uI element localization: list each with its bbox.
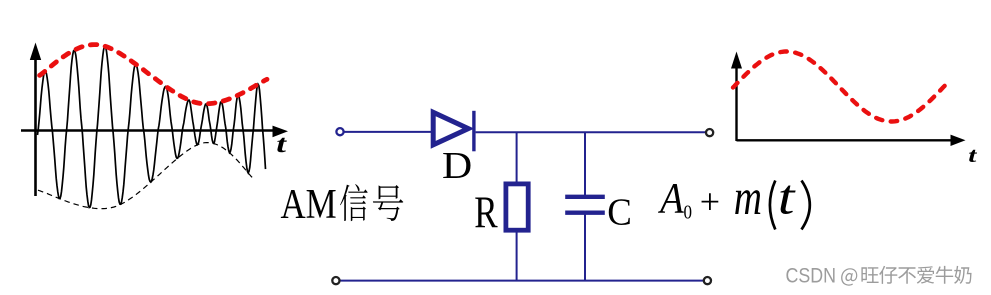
label AM signal (AM信号) (281, 182, 404, 228)
svg-text:t: t (968, 143, 977, 167)
right plot x-axis (737, 135, 966, 146)
wire top input (344, 131, 431, 133)
svg-text:A: A (657, 175, 684, 222)
AM envelope bottom dashed (38, 143, 253, 209)
svg-text:m: m (734, 169, 762, 225)
capacitor C (565, 197, 605, 213)
resistor R (506, 184, 528, 230)
formula A0+m(t) (657, 169, 810, 229)
svg-text:+: + (700, 182, 720, 222)
svg-text:R: R (474, 187, 497, 237)
terminal top-left (336, 128, 343, 135)
svg-text:D: D (442, 144, 472, 187)
wire capacitor branch lower (584, 213, 586, 280)
wire resistor branch upper (516, 132, 518, 185)
diode D (433, 111, 474, 152)
svg-text:CSDN: CSDN (786, 264, 837, 288)
svg-text:t: t (778, 169, 796, 224)
left plot y-axis (30, 43, 41, 197)
terminal bottom-left (332, 277, 339, 284)
terminal bottom-right (704, 277, 711, 284)
wire bottom (340, 280, 704, 282)
AM envelope top red dashed (40, 45, 267, 104)
wire resistor branch lower (516, 230, 518, 280)
terminal top-right (706, 129, 713, 136)
svg-text:C: C (607, 192, 632, 234)
watermark CSDN @旺仔不爱牛奶 (786, 264, 972, 288)
wire top output (476, 131, 706, 133)
svg-text:0: 0 (684, 201, 693, 224)
AM carrier waveform (38, 46, 266, 207)
svg-text:AM: AM (281, 182, 337, 228)
output waveform red dashed sine (733, 52, 949, 122)
wire capacitor branch upper (584, 132, 586, 197)
left plot x-axis (21, 126, 288, 138)
right plot y-axis (731, 52, 742, 142)
